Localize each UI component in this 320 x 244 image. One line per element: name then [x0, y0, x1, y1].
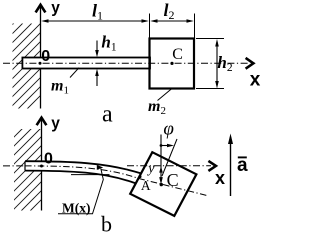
svg-text:x: x [250, 70, 261, 91]
y axis arrowhead (figure b) [37, 118, 47, 126]
svg-text:M(x): M(x) [62, 200, 90, 215]
label m2 + leader [158, 88, 173, 101]
svg-text:y: y [51, 115, 60, 132]
x axis arrowhead (figure a) [246, 58, 254, 69]
dimension l1 [43, 20, 147, 22]
section arrow on beam axis [97, 165, 103, 170]
svg-text:φ: φ [163, 119, 174, 140]
wall edge + y axis (figure b) [41, 120, 43, 211]
svg-text:C: C [172, 46, 183, 63]
beam/axis centerline (figure a) [3, 62, 248, 64]
label m1 + leader [70, 68, 79, 78]
dimension l2 [152, 20, 192, 22]
svg-text:x: x [215, 168, 225, 188]
svg-text:0: 0 [44, 151, 53, 168]
bent beam centerline (figure b) [25, 166, 138, 179]
phi angle arrow [161, 145, 170, 147]
acceleration vector a [230, 137, 232, 196]
tilted square m2 (figure b) [130, 152, 196, 216]
extension lines for l dimensions [149, 14, 151, 39]
dimension h2 extension lines [196, 38, 224, 40]
dimension h1 arrows [96, 41, 98, 55]
center of mass C (figure a) [170, 62, 173, 65]
point C (figure b) [160, 183, 163, 186]
svg-text:C: C [167, 170, 179, 190]
tilted centerline through square (figure b) [138, 178, 207, 195]
vertical reference line through C with down arrow (displacement y) [160, 135, 162, 181]
origin 0 (figure a) [39, 62, 42, 65]
origin 0 (figure b) [40, 165, 43, 168]
wall edge + y axis (figure a) [40, 6, 42, 109]
bent beam m1 (figure b) [25, 161, 141, 183]
wall hatching (figure b) [0, 66, 58, 244]
box m2 (figure a) [150, 39, 195, 89]
svg-text:b: b [101, 211, 112, 236]
svg-text:a: a [102, 102, 113, 128]
x axis centerline (figure b) [3, 165, 42, 167]
svg-text:A: A [141, 178, 151, 193]
svg-text:0: 0 [41, 48, 50, 65]
x axis arrowhead (figure b) [208, 161, 216, 171]
beam m1 (figure a) [22, 58, 150, 69]
point A (figure b) [139, 175, 142, 178]
under-beam reference line [71, 174, 110, 176]
dimension h2 arrow [216, 42, 218, 85]
y axis arrowhead (figure a) [36, 5, 46, 13]
svg-text:y: y [51, 0, 60, 17]
tilted side reference line [162, 139, 177, 176]
pivot dot on vertical line [160, 144, 163, 147]
svg-text:y: y [146, 162, 155, 177]
wall hatching (figure a) [0, 0, 58, 148]
